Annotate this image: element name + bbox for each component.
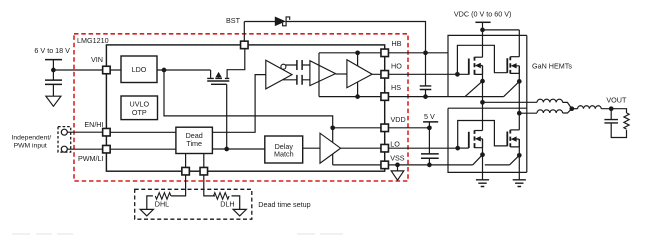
svg-text:VOUT: VOUT [606, 96, 627, 105]
svg-text:PWM/LI: PWM/LI [78, 154, 104, 163]
svg-text:Independent/: Independent/ [11, 134, 51, 141]
svg-text:VSS: VSS [390, 153, 405, 162]
svg-text:HO: HO [391, 61, 402, 70]
svg-text:LO: LO [390, 139, 400, 148]
svg-text:VDD: VDD [391, 115, 406, 124]
svg-text:EN/HI: EN/HI [84, 120, 103, 129]
svg-text:Match: Match [274, 150, 294, 159]
svg-text:OTP: OTP [132, 108, 147, 117]
svg-text:BST: BST [226, 16, 241, 25]
svg-text:LDO: LDO [132, 65, 147, 74]
svg-text:HB: HB [392, 39, 402, 48]
svg-text:Time: Time [186, 139, 202, 148]
svg-text:Dead time setup: Dead time setup [258, 200, 310, 209]
svg-text:VIN: VIN [91, 55, 103, 64]
svg-text:HS: HS [391, 83, 401, 92]
svg-text:6 V to 18 V: 6 V to 18 V [34, 46, 70, 55]
svg-text:DHL: DHL [155, 200, 169, 209]
svg-text:LMG1210: LMG1210 [77, 36, 109, 45]
svg-text:DLH: DLH [220, 199, 234, 208]
svg-text:PWM input: PWM input [14, 142, 47, 149]
svg-text:GaN HEMTs: GaN HEMTs [532, 61, 572, 70]
svg-text:VDC (0 V to 60 V): VDC (0 V to 60 V) [454, 10, 512, 19]
svg-text:5 V: 5 V [424, 112, 435, 121]
